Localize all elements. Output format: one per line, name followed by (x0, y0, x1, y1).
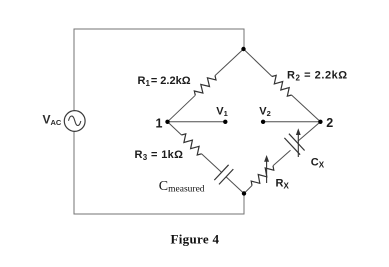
svg-text:CX: CX (311, 157, 325, 170)
resistor R3 (182, 134, 202, 155)
svg-text:VAC: VAC (43, 112, 62, 127)
svg-text:RX: RX (276, 178, 290, 191)
resistor R1 (194, 76, 216, 96)
svg-text:Figure 4: Figure 4 (171, 231, 220, 246)
wire: arm node1 to bottom node (R3 + Cmeasured leads) (168, 122, 182, 135)
svg-text:2: 2 (326, 116, 333, 130)
resistor RX (251, 166, 274, 186)
svg-text:Cmeasured: Cmeasured (159, 179, 205, 195)
node bottom junction (242, 191, 246, 195)
svg-text:R1 = 2.2kΩ: R1 = 2.2kΩ (138, 75, 191, 88)
arrow CX (variable) (297, 134, 299, 158)
node V1 terminal (223, 120, 227, 124)
wire: arm top node to node2 (R2 leads) (244, 49, 273, 77)
svg-text:V2: V2 (259, 106, 271, 119)
svg-text:R3 = 1kΩ: R3 = 1kΩ (135, 149, 184, 162)
wire: arm node1 to top node (R1 leads) (168, 95, 196, 122)
node 1 junction (165, 120, 169, 124)
svg-text:V1: V1 (216, 106, 228, 119)
arrow RX (variable) (266, 160, 268, 183)
wire: V2 to node2 (263, 121, 320, 123)
svg-text:R2 = 2.2kΩ: R2 = 2.2kΩ (287, 70, 348, 83)
node top junction (241, 47, 245, 51)
node V2 terminal (261, 120, 265, 124)
svg-text:1: 1 (156, 116, 163, 130)
AC source VAC (64, 111, 85, 132)
wire: outer bottom (74, 132, 244, 215)
wire: arm bottom node to node2 (RX + CX leads) (244, 186, 252, 194)
wire: outer top (74, 29, 244, 111)
node 2 junction (318, 120, 322, 124)
resistor R2 (272, 75, 292, 96)
capacitor CX (284, 138, 300, 155)
wire: node1 to V1 (168, 121, 226, 123)
capacitor Cmeasured (214, 165, 228, 180)
